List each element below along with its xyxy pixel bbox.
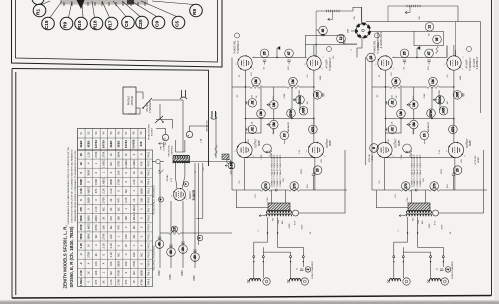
svg-text:RESISTANCE READINGS: RESISTANCE READINGS	[153, 185, 156, 215]
svg-text:2.2K: 2.2K	[109, 188, 113, 194]
svg-text:470K: 470K	[94, 179, 98, 185]
resistor R23 bubble	[397, 109, 406, 118]
svg-text:2: 2	[446, 268, 450, 270]
resistor R19	[269, 151, 272, 157]
svg-text:PIN 7: PIN 7	[147, 205, 150, 212]
svg-text:270K: 270K	[401, 154, 403, 159]
triode V1B AF amplifier 6AT8A	[304, 55, 324, 70]
potentiometer R16	[296, 96, 305, 105]
svg-text:15K: 15K	[124, 234, 128, 239]
svg-text:2.2K: 2.2K	[124, 197, 128, 203]
svg-text:100K: 100K	[460, 75, 462, 80]
capacitor C20 callout	[136, 16, 149, 29]
capacitor C24	[387, 101, 389, 104]
wire V2A cathode rail	[384, 70, 386, 142]
svg-text:200V: 200V	[301, 168, 303, 174]
pentode V24 output 6EB5	[446, 142, 467, 158]
svg-text:2: 2	[306, 268, 310, 270]
capacitor C8 callout	[122, 16, 135, 29]
svg-text:CONNECT CT544 AT THESE POINTS: CONNECT CT544 AT THESE POINTS	[279, 154, 282, 187]
page bottom edge shadow	[0, 302, 499, 304]
resistor R30	[169, 232, 180, 235]
svg-text:R17: R17	[108, 20, 114, 29]
svg-text:CONNECT CT544 AT THESE POINTS: CONNECT CT544 AT THESE POINTS	[413, 154, 416, 187]
svg-text:SOCKET: SOCKET	[152, 127, 154, 136]
svg-text:270K: 270K	[132, 260, 136, 266]
svg-text:3K: 3K	[102, 280, 106, 283]
svg-text:10%: 10%	[447, 184, 449, 188]
svg-text:B: B	[163, 137, 167, 139]
svg-text:.02: .02	[250, 127, 254, 132]
svg-text:200V: 200V	[441, 224, 443, 229]
svg-text:1K: 1K	[109, 153, 113, 156]
electrolytic C26D	[191, 253, 200, 262]
svg-text:2.2K: 2.2K	[109, 252, 113, 258]
svg-text:+: +	[159, 198, 163, 200]
svg-text:02: 02	[369, 56, 373, 60]
svg-text:1 MEG: 1 MEG	[102, 178, 106, 186]
svg-text:PIN 5: PIN 5	[147, 269, 150, 276]
svg-text:47K: 47K	[117, 197, 121, 202]
wire AF top box	[305, 36, 343, 45]
wire screen drops	[243, 158, 245, 190]
svg-text:1M: 1M	[394, 79, 398, 84]
svg-text:47K: 47K	[117, 225, 121, 230]
resistor R12	[287, 86, 299, 89]
svg-text:6AT8A: 6AT8A	[101, 140, 105, 148]
svg-text:270K: 270K	[102, 197, 106, 203]
svg-text:2.2K: 2.2K	[94, 206, 98, 212]
svg-text:MTD ON: MTD ON	[475, 155, 477, 164]
resistor R21	[390, 86, 402, 89]
svg-text:NC: NC	[139, 253, 143, 257]
svg-text:18V: 18V	[388, 139, 390, 143]
svg-text:270K: 270K	[117, 179, 121, 185]
capacitor C28 bubble	[420, 131, 429, 140]
svg-text:20: 20	[456, 168, 460, 172]
pin header column	[146, 150, 153, 287]
wire bus118	[385, 118, 454, 120]
tube lineup table frame	[78, 129, 146, 151]
svg-text:PIN 2: PIN 2	[147, 160, 150, 167]
svg-text:6EB5: 6EB5	[330, 139, 332, 145]
svg-text:SPKR: SPKR	[478, 157, 480, 163]
svg-text:2.2K: 2.2K	[79, 270, 83, 276]
svg-text:NC: NC	[124, 189, 128, 193]
wire ps rail4	[194, 163, 196, 268]
svg-text:47K: 47K	[124, 279, 128, 284]
svg-text:6EB5: 6EB5	[259, 139, 261, 145]
svg-text:R18: R18	[93, 20, 99, 29]
svg-text:20: 20	[181, 247, 185, 251]
svg-text:2.2K: 2.2K	[86, 152, 90, 158]
svg-text:BLU: BLU	[422, 219, 424, 223]
svg-text:25: 25	[263, 51, 267, 55]
wire speaker harness 1	[254, 233, 268, 256]
wire input stub	[416, 48, 418, 58]
svg-text:GND: GND	[348, 28, 350, 33]
capacitor C21	[400, 49, 409, 58]
svg-text:R10: R10	[77, 20, 83, 29]
svg-text:250V: 250V	[158, 270, 161, 276]
svg-text:380K: 380K	[86, 169, 90, 175]
svg-text:380K: 380K	[86, 197, 90, 203]
svg-text:270K: 270K	[102, 151, 106, 157]
voice coil 2B	[430, 279, 441, 282]
svg-text:INTERLOCK: INTERLOCK	[207, 120, 209, 132]
wire left rail ch2	[371, 58, 373, 191]
svg-text:47K: 47K	[391, 72, 393, 76]
svg-text:VOLTAGE READINGS: VOLTAGE READINGS	[153, 245, 156, 271]
wire ps rail2	[170, 201, 172, 268]
resistor R29	[409, 151, 412, 157]
svg-text:PIN 6: PIN 6	[147, 196, 150, 203]
svg-text:TREB: TREB	[439, 90, 441, 96]
capacitor C13	[319, 26, 328, 35]
wire bus87	[372, 86, 390, 88]
capacitor C25	[367, 53, 376, 62]
svg-text:12: 12	[428, 25, 432, 29]
svg-text:.02: .02	[390, 100, 394, 105]
svg-text:1K: 1K	[139, 180, 143, 183]
svg-text:BALANCE: BALANCE	[287, 121, 290, 132]
resistor R27 bubble	[427, 109, 436, 118]
terminal B	[162, 134, 168, 140]
AC interlock plug P1	[180, 97, 187, 99]
svg-text:270K: 270K	[94, 151, 98, 157]
svg-text:380K: 380K	[117, 151, 121, 157]
AC outlet P2	[211, 111, 213, 118]
wire bus118	[245, 118, 314, 120]
svg-text:1K: 1K	[132, 280, 136, 283]
wire bus87	[232, 86, 250, 88]
wire bus158	[243, 157, 245, 159]
svg-text:10K: 10K	[139, 197, 143, 202]
terminal fb 2	[433, 210, 439, 216]
resistor R17 bubble	[287, 109, 296, 118]
arrow plus B	[259, 215, 264, 217]
svg-text:270K: 270K	[102, 233, 106, 239]
svg-text:6EB5: 6EB5	[117, 140, 121, 147]
svg-text:2.2K: 2.2K	[102, 188, 106, 194]
svg-text:470: 470	[451, 127, 455, 133]
capacitor C14	[247, 101, 249, 104]
svg-text:47: 47	[427, 51, 431, 55]
svg-text:265V: 265V	[181, 270, 184, 276]
svg-text:380K: 380K	[139, 270, 143, 276]
svg-text:40: 40	[321, 29, 325, 33]
wire tone rails	[260, 87, 262, 109]
speaker 2B	[441, 278, 448, 285]
svg-text:½ 6AT8A/17: ½ 6AT8A/17	[236, 40, 240, 54]
potentiometer R26	[436, 96, 445, 105]
wire V1A plate	[252, 57, 307, 59]
svg-text:270: 270	[292, 183, 296, 189]
wire screen drops	[383, 158, 385, 190]
wire jack stubs	[357, 38, 362, 58]
svg-text:GRN: GRN	[278, 219, 280, 224]
svg-text:NC: NC	[109, 162, 113, 166]
svg-text:270K: 270K	[86, 251, 90, 257]
svg-text:SF2550, E, R (Ch. 1B30, 7B30): SF2550, E, R (Ch. 1B30, 7B30)	[69, 226, 74, 287]
svg-text:25: 25	[297, 268, 299, 270]
potentiometer R14	[270, 101, 279, 110]
tapped lead right	[388, 5, 458, 7]
svg-text:10K: 10K	[102, 225, 106, 230]
electrolytic C26B	[167, 248, 176, 257]
svg-text:.005: .005	[442, 107, 446, 113]
fuse F1	[156, 159, 160, 163]
svg-text:25: 25	[403, 51, 407, 55]
svg-text:10K: 10K	[124, 216, 128, 221]
svg-text:3K: 3K	[94, 253, 98, 256]
parts box border left	[12, 69, 16, 299]
chassis photo remnant band	[60, 0, 148, 5]
svg-text:GRN: GRN	[289, 223, 291, 228]
svg-text:1K: 1K	[173, 226, 177, 231]
svg-text:2.2K: 2.2K	[102, 243, 106, 249]
svg-text:NC: NC	[132, 271, 136, 275]
svg-text:+: +	[198, 237, 202, 239]
capacitor C5 callout	[172, 16, 185, 29]
svg-text:6AT8A: 6AT8A	[94, 140, 98, 148]
svg-text:CONNECT CT544 AT THESE POINTS: CONNECT CT544 AT THESE POINTS	[410, 154, 413, 187]
svg-text:1 MEG: 1 MEG	[132, 205, 136, 213]
wire B plus feed	[377, 191, 409, 208]
svg-text:CONNECT CT544 AT THESE POINTS: CONNECT CT544 AT THESE POINTS	[419, 154, 422, 187]
svg-text:1M: 1M	[412, 122, 416, 127]
voice coil 1A	[250, 279, 261, 282]
svg-text:6EB5: 6EB5	[470, 139, 472, 145]
svg-text:THESE READINGS WILL VARY DEPEN: THESE READINGS WILL VARY DEPENDING UPON …	[67, 146, 70, 225]
wire ps to channels	[203, 232, 232, 234]
svg-text:117VAC: 117VAC	[163, 143, 166, 151]
svg-text:½ 6AT8A/17: ½ 6AT8A/17	[468, 57, 472, 71]
svg-text:47K: 47K	[251, 72, 253, 76]
wire AF top box	[446, 46, 448, 58]
svg-text:30: 30	[169, 250, 173, 254]
wire jack top	[361, 7, 363, 23]
wire top bus right	[457, 6, 459, 22]
svg-text:270: 270	[264, 183, 268, 189]
rectifier V7 5U4GB	[171, 188, 189, 201]
capacitor C29	[453, 166, 462, 175]
svg-text:15K: 15K	[109, 261, 113, 266]
parts box border top	[12, 69, 209, 167]
svg-text:4.7K: 4.7K	[439, 149, 441, 154]
phono motor M1	[123, 87, 136, 114]
capacitor nonpolarized 1	[300, 269, 303, 271]
pentode V13 output 6EB5	[235, 142, 256, 158]
svg-text:470K: 470K	[79, 224, 83, 230]
svg-text:MEASURED FROM SOCKET TERMINALS: MEASURED FROM SOCKET TERMINALS TO CHASSI…	[74, 151, 77, 222]
potentiometer R25	[410, 120, 419, 129]
svg-text:470K: 470K	[289, 109, 293, 117]
svg-text:3K: 3K	[139, 171, 143, 174]
svg-text:+: +	[184, 183, 188, 185]
speaker terminals 2	[393, 256, 395, 258]
svg-text:6X8: 6X8	[139, 141, 143, 146]
svg-text:NC: NC	[333, 55, 335, 59]
svg-text:1 MEG: 1 MEG	[86, 187, 90, 195]
svg-text:6EB5: 6EB5	[399, 139, 401, 145]
svg-text:1K: 1K	[124, 244, 128, 247]
svg-text:10K: 10K	[94, 261, 98, 266]
svg-text:NC: NC	[102, 207, 106, 211]
svg-text:½ 6AT8A/17: ½ 6AT8A/17	[376, 40, 380, 54]
svg-text:R8: R8	[192, 9, 198, 15]
capacitor nonpolarized 2	[440, 269, 443, 271]
wire xfmr secondary drops	[267, 217, 269, 233]
svg-text:NC: NC	[132, 225, 136, 229]
output transformer T2	[408, 203, 430, 211]
svg-text:380K: 380K	[79, 179, 83, 185]
svg-text:2.2K: 2.2K	[109, 279, 113, 285]
svg-text:3K: 3K	[102, 216, 106, 219]
svg-text:270: 270	[432, 183, 436, 189]
wire B plus feed	[237, 191, 269, 208]
wire right rail	[480, 22, 482, 114]
capacitor C25	[387, 128, 389, 131]
wire V1A cathode rail	[244, 70, 246, 142]
svg-text:BALANCE: BALANCE	[427, 121, 430, 132]
svg-text:1K: 1K	[132, 171, 136, 174]
svg-text:5%: 5%	[379, 180, 381, 183]
svg-text:C8: C8	[124, 21, 130, 27]
svg-text:380K: 380K	[79, 233, 83, 239]
svg-text:220K: 220K	[424, 93, 426, 98]
chassis photo dark knob	[77, 0, 85, 9]
capacitor C14	[337, 34, 346, 43]
capacitor C22	[425, 49, 434, 58]
svg-text:50V: 50V	[423, 178, 425, 182]
svg-text:12: 12	[339, 37, 343, 41]
svg-text:10%: 10%	[307, 184, 309, 188]
voltage-resistance table grid	[78, 150, 146, 287]
electrolytic C26C	[179, 245, 188, 254]
capacitor C18 bubble	[280, 131, 289, 140]
power transformer T3	[173, 158, 190, 163]
wire bus190	[232, 189, 261, 191]
capacitor C15	[247, 128, 249, 131]
svg-text:47: 47	[287, 51, 291, 55]
svg-text:1K: 1K	[132, 198, 136, 201]
svg-text:470K: 470K	[429, 109, 433, 117]
svg-text:47K: 47K	[109, 216, 113, 221]
svg-text:& RADIO JACK: & RADIO JACK	[380, 31, 383, 48]
svg-text:3K: 3K	[79, 153, 83, 156]
svg-text:R1: R1	[36, 9, 42, 15]
svg-text:CHANGER: CHANGER	[149, 101, 152, 113]
wire to voice coils 2	[393, 262, 395, 279]
terminal fb 1	[293, 210, 299, 216]
resistor R18 bubble	[309, 125, 318, 134]
svg-text:10K: 10K	[94, 270, 98, 275]
resistor R11	[250, 86, 262, 89]
svg-text:1.5A: 1.5A	[158, 169, 161, 174]
capacitor C9 callout	[152, 16, 165, 29]
wire ps rail3	[182, 201, 184, 268]
svg-text:05: 05	[435, 37, 439, 41]
svg-text:CONNECT CT544 AT THESE POINTS: CONNECT CT544 AT THESE POINTS	[276, 154, 279, 187]
resistor R22	[427, 86, 439, 89]
voice coil 2A	[390, 279, 401, 282]
wire interchannel B+ rail	[364, 57, 366, 165]
svg-text:PIN 8: PIN 8	[147, 215, 150, 222]
svg-text:1 MEG: 1 MEG	[86, 223, 90, 231]
wire grid link	[455, 50, 457, 56]
pentode V23 output 6EB5	[375, 142, 396, 158]
svg-text:6EB5: 6EB5	[109, 140, 113, 147]
resistor R111	[290, 182, 299, 191]
svg-text:1K: 1K	[124, 153, 128, 156]
svg-text:380K: 380K	[79, 215, 83, 221]
svg-text:1M: 1M	[432, 48, 434, 51]
svg-text:20V: 20V	[321, 159, 323, 163]
svg-text:PIN 9: PIN 9	[147, 224, 150, 231]
svg-text:CONNECT CT544 AT THESE POINTS: CONNECT CT544 AT THESE POINTS	[273, 154, 276, 187]
svg-text:5%: 5%	[239, 180, 241, 183]
svg-text:470K: 470K	[94, 224, 98, 230]
svg-text:350VAC: 350VAC	[166, 174, 169, 182]
svg-text:1M: 1M	[272, 102, 276, 107]
resistor R18 callout	[90, 17, 103, 30]
phono-radio jack J1	[356, 24, 370, 38]
svg-text:20: 20	[422, 133, 426, 137]
wire feedback rail	[439, 150, 484, 213]
svg-text:PHONO MOTOR: PHONO MOTOR	[149, 124, 151, 140]
svg-text:47K: 47K	[139, 161, 143, 166]
svg-text:PIN 3: PIN 3	[147, 251, 150, 258]
svg-text:470: 470	[311, 127, 315, 133]
resistor R1 callout	[33, 4, 46, 17]
svg-text:25: 25	[437, 268, 439, 270]
svg-text:8.5V: 8.5V	[295, 220, 297, 225]
svg-text:GRN: GRN	[418, 219, 420, 224]
pentode V14 output 6EB5	[306, 142, 327, 158]
svg-text:255V: 255V	[193, 275, 196, 281]
svg-text:380K: 380K	[117, 260, 121, 266]
svg-text:380K: 380K	[109, 179, 113, 185]
resistor R10 callout	[75, 17, 88, 30]
svg-text:PIN 2: PIN 2	[147, 242, 150, 249]
svg-text:PIN 1: PIN 1	[147, 151, 150, 158]
capacitor C16 bubble	[299, 106, 308, 115]
svg-text:380K: 380K	[139, 188, 143, 194]
svg-text:MTD ON: MTD ON	[369, 154, 371, 162]
triode V1A phase inverter 6AT8A	[235, 55, 255, 70]
arrow takeoff left	[328, 18, 333, 21]
svg-text:1M: 1M	[412, 102, 416, 107]
svg-text:.005: .005	[316, 92, 320, 98]
chassis photo dark patch	[127, 0, 134, 5]
svg-text:C9: C9	[155, 21, 161, 27]
svg-text:200V: 200V	[301, 224, 303, 229]
wire AC down to transformer	[182, 100, 184, 152]
svg-text:470K: 470K	[139, 279, 143, 285]
wire tone rails	[400, 87, 402, 109]
capacitor C18 callout	[42, 17, 55, 30]
svg-text:R9: R9	[63, 22, 69, 28]
wire right box	[414, 31, 444, 45]
svg-text:20: 20	[282, 133, 286, 137]
svg-text:PIN 1: PIN 1	[147, 233, 150, 240]
triode V2B AF amplifier 6AT8A	[444, 55, 464, 70]
arrow takeoff right	[405, 11, 410, 14]
wire V2A plate	[392, 57, 447, 59]
svg-text:NC: NC	[109, 271, 113, 275]
svg-text:1M: 1M	[307, 101, 309, 104]
